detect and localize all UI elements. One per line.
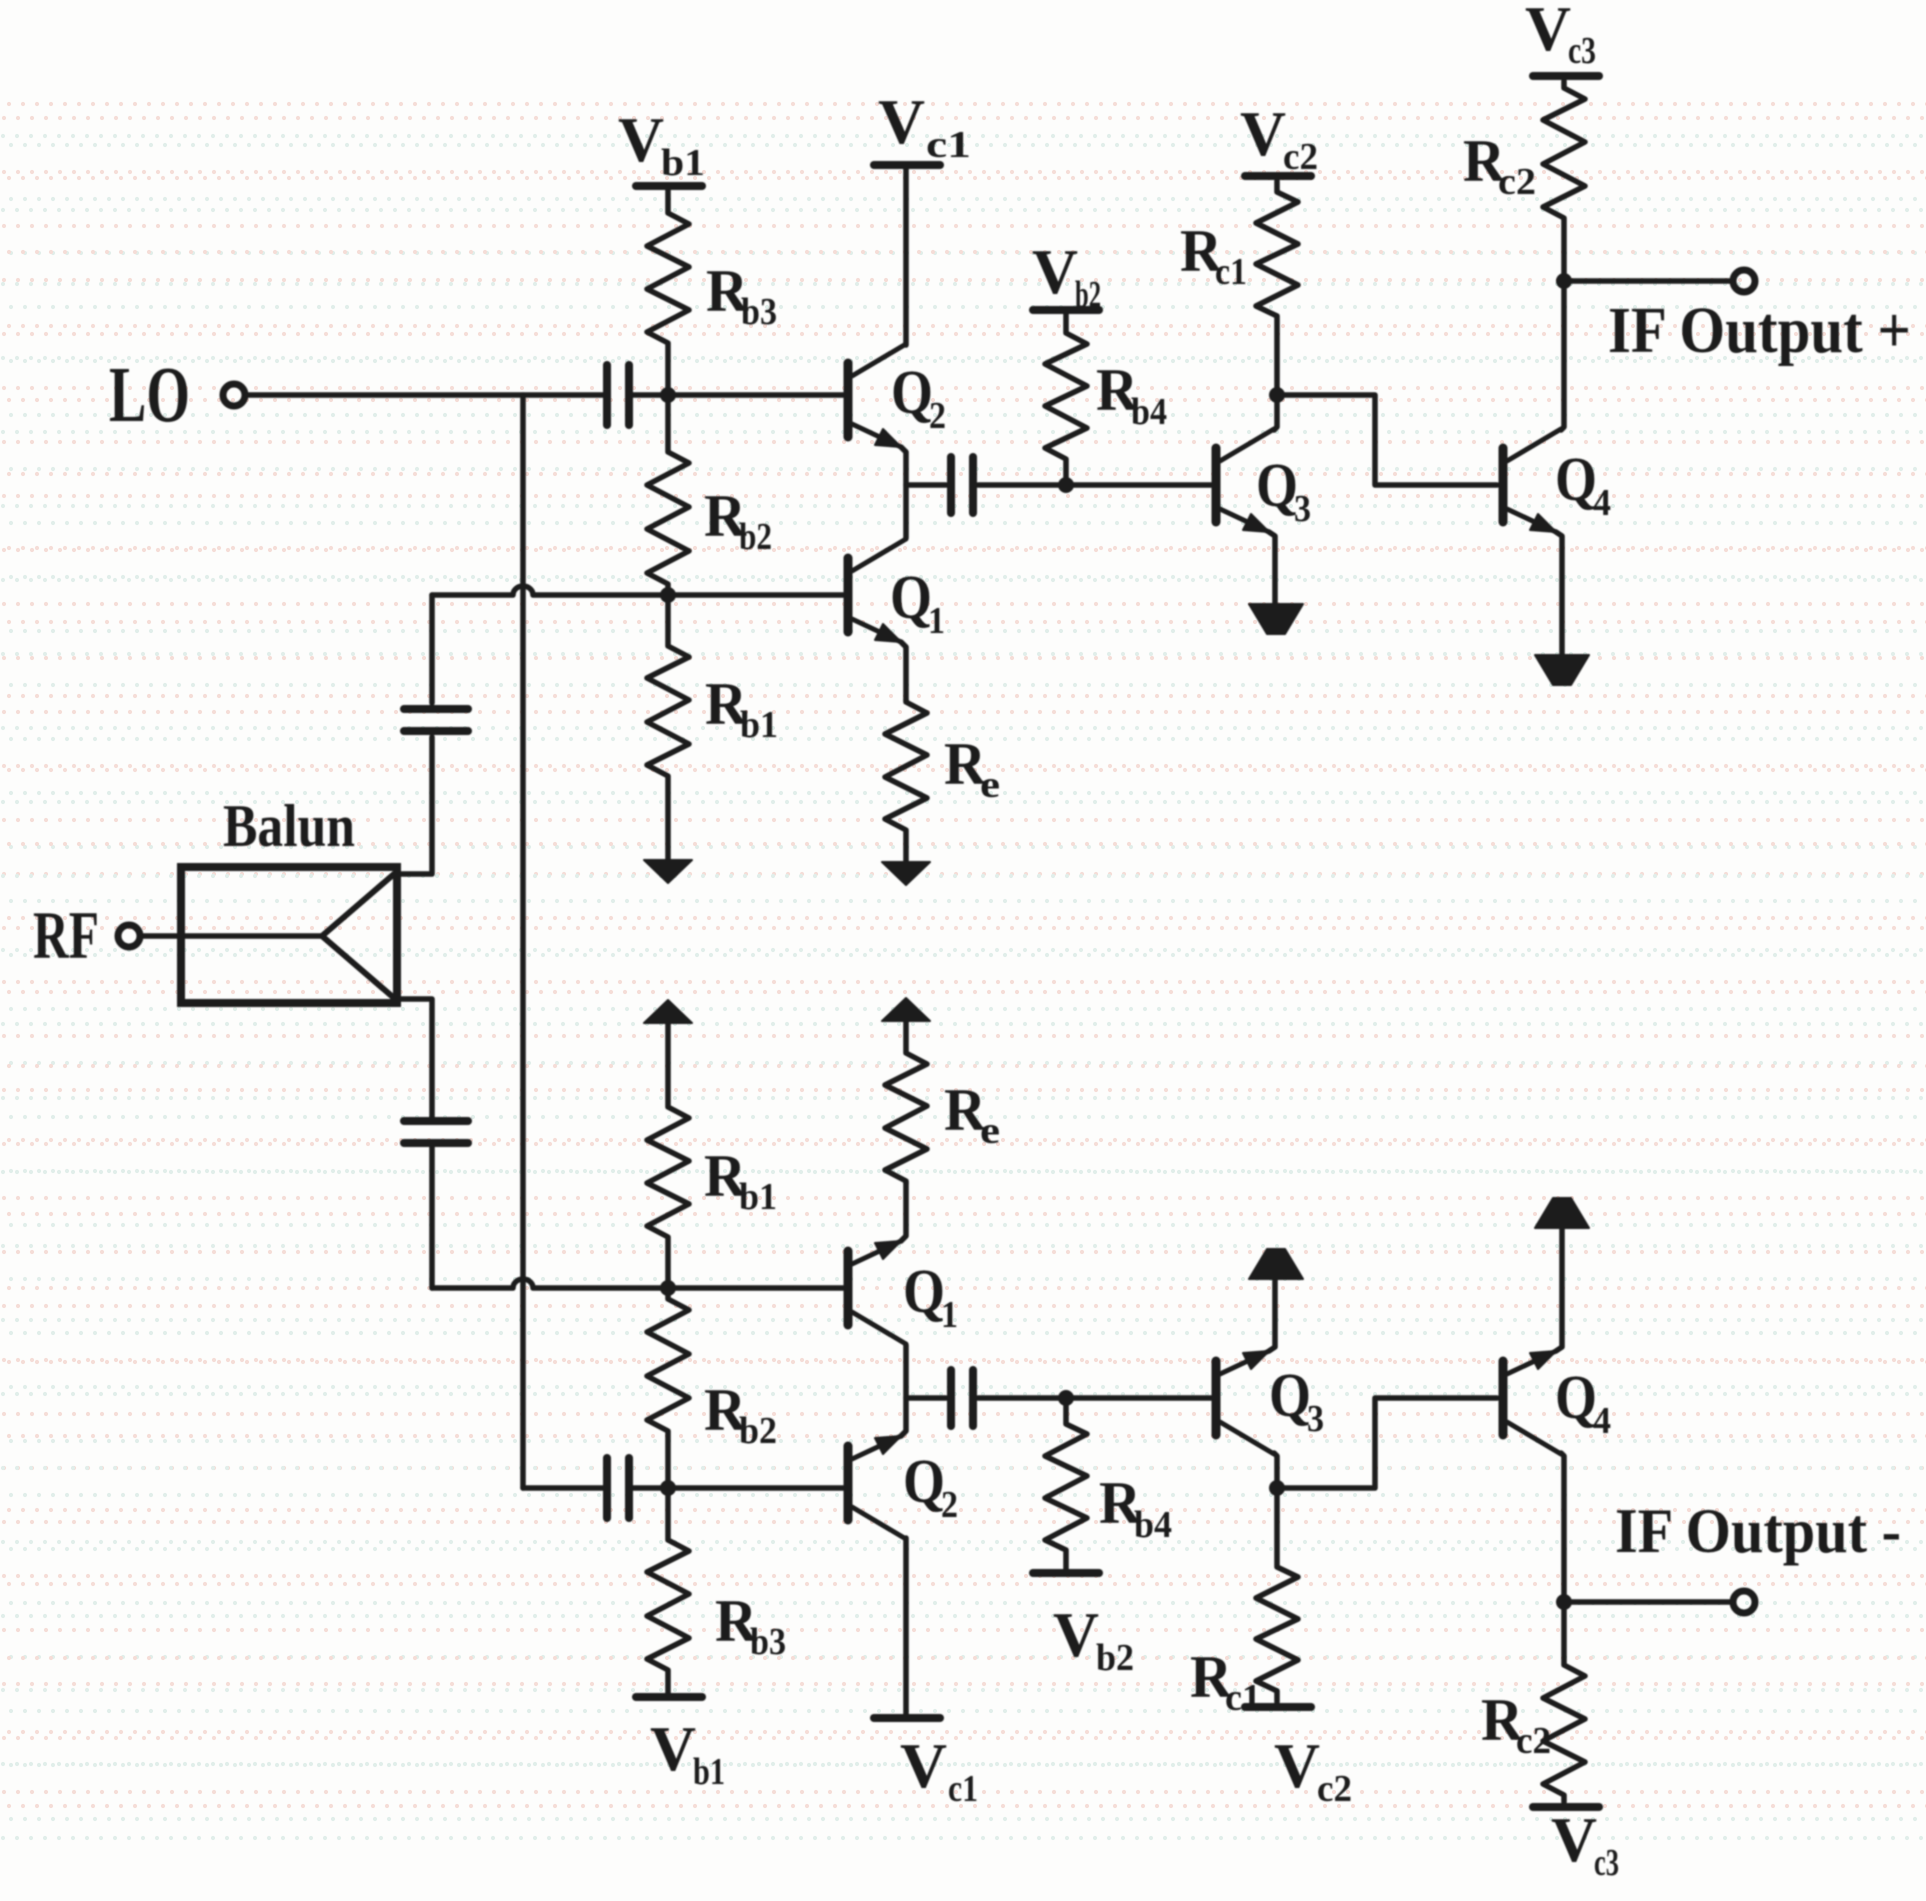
transistor Q2 (bottom) <box>844 1446 853 1520</box>
label Q2 (top) <box>891 359 946 437</box>
resistor Rb1 (top) <box>647 598 689 860</box>
svg-text:IF Output +: IF Output + <box>1608 294 1911 367</box>
supply bar Vb2 (bottom) <box>1033 1569 1099 1577</box>
supply bar Vc1 (top) <box>874 161 940 169</box>
resistor Rc1 (top) <box>1256 181 1298 392</box>
label IF Output + <box>1608 294 1911 367</box>
svg-text:V: V <box>618 104 664 175</box>
terminal RF <box>118 925 140 947</box>
capacitor C3 RF coupling (top) <box>404 709 468 731</box>
svg-text:V: V <box>1274 1730 1320 1801</box>
node N4 (bottom Q3 collector) <box>1269 1480 1285 1496</box>
capacitor C1 LO coupling (bottom) <box>607 1458 629 1518</box>
svg-text:3: 3 <box>1294 488 1311 530</box>
svg-text:b2: b2 <box>1075 274 1101 316</box>
resistor Rb4 (bottom) <box>1045 1400 1087 1569</box>
arrow below Re (top) <box>882 862 930 885</box>
resistor Rb2 (top) <box>647 400 689 593</box>
svg-text:V: V <box>1525 0 1571 64</box>
label IF Output - <box>1615 1495 1901 1566</box>
wire Q3 emitter to ground (bottom) <box>1269 1279 1275 1351</box>
supply bar Vb1 (bottom) <box>636 1693 702 1701</box>
svg-text:e: e <box>980 764 1000 806</box>
svg-text:Q: Q <box>1555 1364 1597 1432</box>
wire LO input <box>246 392 604 398</box>
balun winding triangle <box>322 874 394 998</box>
svg-text:LO: LO <box>109 352 190 439</box>
svg-text:c2: c2 <box>1498 161 1536 203</box>
svg-text:b4: b4 <box>1134 1504 1172 1546</box>
resistor Rb2 (bottom) <box>647 1290 689 1483</box>
svg-text:RF: RF <box>33 897 99 973</box>
wire IF output + (top) <box>1564 278 1731 284</box>
label Vc1 (top) <box>878 86 971 166</box>
node N2 (bottom Q1 base) <box>660 1280 676 1296</box>
wire Q2 emitter bus (bottom) <box>901 1345 906 1436</box>
svg-text:V: V <box>878 86 925 157</box>
resistor Re (top) <box>885 700 927 862</box>
label Vc3 (top) <box>1525 0 1596 72</box>
wire Q2 collector to Vc1 (bottom) <box>903 1538 909 1715</box>
vertical LO bus wire <box>520 395 526 1488</box>
transistor Q3 (top) <box>1212 448 1221 522</box>
label Rc1 (bottom) <box>1190 1644 1261 1719</box>
wire C2 to Q3 base (top) <box>978 482 1213 488</box>
resistor Rc2 (bottom) <box>1543 1605 1585 1802</box>
svg-text:4: 4 <box>1593 482 1611 524</box>
svg-text:b3: b3 <box>750 1621 786 1663</box>
arrow below Rb1 (top) <box>644 860 692 883</box>
svg-text:Q: Q <box>903 1448 945 1516</box>
label Q1 (bottom) <box>903 1258 958 1336</box>
terminal IF Output + <box>1733 270 1755 292</box>
svg-text:c1: c1 <box>1225 1677 1261 1719</box>
wire N4 to Q4 base (top) <box>1277 395 1497 485</box>
wire IF output - (bottom) <box>1564 1599 1731 1605</box>
svg-text:c1: c1 <box>948 1768 978 1810</box>
svg-text:b2: b2 <box>739 1410 777 1452</box>
svg-text:b1: b1 <box>661 142 705 184</box>
label Q4 (top) <box>1555 446 1611 524</box>
svg-text:V: V <box>1032 236 1078 307</box>
svg-text:Q: Q <box>903 1258 945 1326</box>
capacitor C2 interstage (bottom) <box>951 1370 973 1426</box>
label Vc3 (bottom) <box>1551 1804 1619 1884</box>
svg-text:c2: c2 <box>1317 1768 1352 1810</box>
svg-text:3: 3 <box>1307 1398 1324 1440</box>
svg-text:b1: b1 <box>740 704 778 746</box>
resistor Rb4 (top) <box>1045 314 1087 483</box>
resistor Rc1 (bottom) <box>1256 1491 1298 1702</box>
terminal LO <box>223 384 245 406</box>
supply bar Vc2 (bottom) <box>1245 1703 1311 1711</box>
svg-text:c2: c2 <box>1283 136 1318 178</box>
label Vc2 (top) <box>1240 98 1318 178</box>
svg-text:Q: Q <box>1555 446 1597 514</box>
svg-text:c1: c1 <box>926 124 971 166</box>
node N5 (top IF junction) <box>1556 273 1572 289</box>
label Q1 (top) <box>890 564 945 642</box>
svg-text:c1: c1 <box>1215 251 1247 293</box>
label Rb1 (bottom) <box>704 1143 777 1218</box>
wire Q3 collector (bottom) <box>1274 1453 1277 1485</box>
node N4 (top Q3 collector) <box>1269 387 1285 403</box>
resistor Rc2 (top) <box>1543 81 1585 278</box>
wire C4 to base row (bottom) <box>429 1147 435 1288</box>
label Rb3 (bottom) <box>715 1588 786 1663</box>
label Rb2 (bottom) <box>704 1377 777 1452</box>
svg-text:b2: b2 <box>1096 1637 1134 1679</box>
ground G2 Q4 (top) <box>1535 655 1589 685</box>
transistor Q4 (bottom) <box>1499 1361 1508 1435</box>
wire C1 to Q2 base <box>633 392 845 398</box>
node N2 (top Q1 base) <box>660 587 676 603</box>
svg-text:2: 2 <box>941 1484 958 1526</box>
label Rc2 (top) <box>1463 128 1536 203</box>
label Vb1 (bottom) <box>650 1713 725 1793</box>
wire Q3 collector (top) <box>1274 398 1277 430</box>
transistor Q1 (bottom) <box>844 1251 853 1325</box>
supply bar Vc1 (bottom) <box>874 1714 940 1722</box>
svg-text:1: 1 <box>928 600 945 642</box>
node N3 (bottom Q3 base) <box>1058 1390 1074 1406</box>
wire Q2 emitter bus (top) <box>901 447 906 538</box>
resistor Rb3 (bottom) <box>647 1493 689 1693</box>
resistor Rb1 (bottom) <box>647 1023 689 1285</box>
svg-text:b1: b1 <box>739 1176 777 1218</box>
transistor Q1 (top) <box>844 558 853 632</box>
label Vb2 (top) <box>1032 236 1101 316</box>
svg-text:Q: Q <box>1269 1362 1311 1430</box>
svg-text:c3: c3 <box>1568 30 1596 72</box>
label Rb1 (top) <box>705 671 778 746</box>
wire Q2 collector to Vc1 (top) <box>903 168 909 345</box>
wire emitter branch to C2 (top) <box>906 482 946 488</box>
label Re (bottom) <box>944 1077 1000 1152</box>
wire RF input <box>141 933 322 939</box>
svg-text:b4: b4 <box>1131 391 1167 433</box>
svg-text:V: V <box>1551 1804 1597 1875</box>
svg-text:V: V <box>650 1713 696 1784</box>
wire Q4 emitter to ground (bottom) <box>1556 1228 1562 1351</box>
supply bar Vb1 (top) <box>636 182 702 190</box>
label Vb1 (top) <box>618 104 705 184</box>
svg-text:Balun: Balun <box>223 793 355 859</box>
label Q2 (bottom) <box>903 1448 958 1526</box>
wire emitter branch to C2 (bottom) <box>906 1395 946 1401</box>
label Vb2 (bottom) <box>1053 1599 1134 1679</box>
svg-text:e: e <box>980 1110 1000 1152</box>
transistor Q3 (bottom) <box>1212 1361 1221 1435</box>
label Q3 (bottom) <box>1269 1362 1324 1440</box>
svg-text:b2: b2 <box>739 516 772 558</box>
capacitor C4 RF coupling (bottom) <box>404 1121 468 1143</box>
wire Q1 emitter to Re (bottom) <box>901 1183 906 1241</box>
wire C2 to Q3 base (bottom) <box>978 1395 1213 1401</box>
svg-text:V: V <box>1240 98 1286 169</box>
transistor Q2 (top) <box>844 363 853 437</box>
label Q3 (top) <box>1256 452 1311 530</box>
svg-text:b1: b1 <box>693 1751 725 1793</box>
label Vc2 (bottom) <box>1274 1730 1352 1810</box>
ground G1 Q3 (top) <box>1249 604 1303 634</box>
svg-text:V: V <box>1053 1599 1099 1670</box>
wire N4 to Q4 base (bottom) <box>1277 1398 1497 1488</box>
label Rb3 (top) <box>706 258 777 333</box>
wire LO bus corner (bottom) <box>523 1485 604 1491</box>
wire balun bottom output <box>397 999 432 1118</box>
wire C1 to Q2 base (bottom) <box>633 1485 845 1491</box>
svg-text:b3: b3 <box>741 291 777 333</box>
node N1 (bottom LO bias) <box>660 1480 676 1496</box>
node N5 (bottom IF junction) <box>1556 1594 1572 1610</box>
svg-text:V: V <box>900 1730 947 1801</box>
arrow above Rb1 (bottom) <box>644 1000 692 1023</box>
wire Q4 emitter to ground (top) <box>1556 532 1562 655</box>
svg-text:c3: c3 <box>1594 1842 1619 1884</box>
node N3 (top Q3 base) <box>1058 477 1074 493</box>
svg-text:Q: Q <box>891 359 933 427</box>
wire base row to Q1 (bottom) <box>432 1279 845 1288</box>
label LO <box>109 352 190 439</box>
label Q4 (bottom) <box>1555 1364 1611 1442</box>
transistor Q4 (top) <box>1499 448 1508 522</box>
label Balun <box>223 793 355 859</box>
wire Q4 collector (top) <box>1561 284 1564 430</box>
label Rb2 (top) <box>704 483 772 558</box>
arrow above Re (bottom) <box>882 998 930 1021</box>
supply bar Vc2 (top) <box>1245 172 1311 180</box>
wire C3 to base row (top) <box>429 595 435 703</box>
capacitor C2 interstage (top) <box>951 457 973 513</box>
svg-text:Q: Q <box>890 564 932 632</box>
svg-text:Q: Q <box>1256 452 1298 520</box>
resistor Rb3 (top) <box>647 190 689 390</box>
ground G2 Q4 (bottom) <box>1535 1198 1589 1228</box>
wire Q1 emitter to Re (top) <box>901 642 906 700</box>
ground G1 Q3 (bottom) <box>1249 1249 1303 1279</box>
wire base row to Q1 (top) <box>432 586 845 595</box>
capacitor C1 LO coupling (top) <box>607 365 629 425</box>
wire Q4 collector (bottom) <box>1561 1453 1564 1599</box>
balun box <box>181 867 397 1003</box>
node N1 (top LO bias) <box>660 387 676 403</box>
label Rb4 (top) <box>1096 357 1167 433</box>
svg-text:2: 2 <box>929 395 946 437</box>
supply bar Vc3 (bottom) <box>1533 1803 1599 1811</box>
label Vc1 (bottom) <box>900 1730 978 1810</box>
svg-text:1: 1 <box>941 1294 958 1336</box>
resistor Re (bottom) <box>885 1021 927 1183</box>
supply bar Vc3 (top) <box>1533 72 1599 80</box>
svg-text:IF Output -: IF Output - <box>1615 1495 1901 1566</box>
wire balun top output <box>397 737 432 874</box>
svg-text:c2: c2 <box>1516 1720 1551 1762</box>
label Rc1 (top) <box>1180 218 1247 293</box>
svg-text:4: 4 <box>1593 1400 1611 1442</box>
terminal IF Output - <box>1733 1591 1755 1613</box>
label Rc2 (bottom) <box>1481 1687 1551 1762</box>
wire Q3 emitter to ground (top) <box>1269 532 1275 604</box>
label Re (top) <box>944 731 1000 806</box>
label Rb4 (bottom) <box>1099 1470 1172 1546</box>
supply bar Vb2 (top) <box>1033 306 1099 314</box>
label RF <box>33 897 99 973</box>
